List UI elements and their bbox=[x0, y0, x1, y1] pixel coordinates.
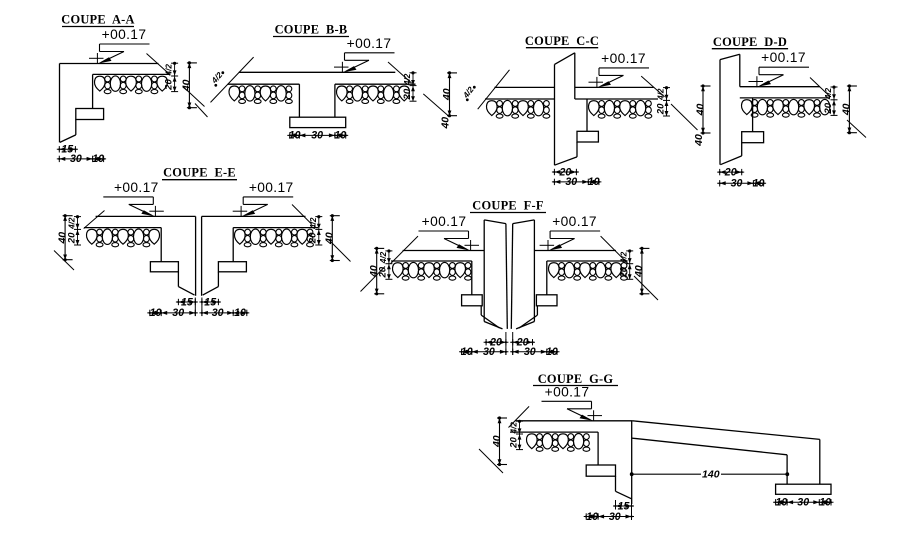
pavement surface left bbox=[494, 86, 554, 88]
svg-text:30: 30 bbox=[731, 178, 743, 190]
right footing bbox=[536, 295, 557, 306]
pavement surface line bbox=[60, 63, 159, 65]
left slope line bbox=[211, 57, 254, 102]
wall left face bbox=[719, 60, 721, 165]
base course edge right bbox=[546, 261, 548, 295]
kerb face line bbox=[59, 64, 61, 143]
extension line centre left bbox=[194, 298, 196, 317]
kerb face line bbox=[631, 421, 633, 504]
svg-text:+00.17: +00.17 bbox=[114, 180, 159, 195]
left footing bbox=[150, 262, 178, 272]
left wall inner face bbox=[506, 224, 507, 329]
svg-text:40: 40 bbox=[633, 265, 645, 278]
svg-text:COUPE F-F: COUPE F-F bbox=[472, 199, 543, 213]
svg-text:40: 40 bbox=[441, 88, 453, 101]
svg-text:40: 40 bbox=[368, 265, 380, 278]
svg-text:COUPE D-D: COUPE D-D bbox=[713, 35, 787, 49]
left wall bottom edge bbox=[484, 322, 502, 329]
dimension 30/10 bbox=[717, 182, 766, 184]
dimension 30/10 bbox=[510, 351, 559, 353]
svg-text:40: 40 bbox=[841, 103, 853, 116]
vertical dimension 40 bbox=[499, 418, 501, 465]
base course top left bbox=[391, 260, 472, 262]
svg-text:COUPE C-C: COUPE C-C bbox=[525, 34, 599, 48]
footing lower edge bbox=[615, 476, 617, 491]
console edge bbox=[586, 99, 588, 131]
pavement surface right bbox=[202, 215, 306, 217]
footing lower edge bbox=[741, 143, 743, 156]
svg-text:10: 10 bbox=[753, 178, 765, 190]
wall top edge bbox=[555, 53, 575, 65]
footing bbox=[290, 117, 346, 127]
svg-text:4/2: 4/2 bbox=[165, 64, 174, 77]
svg-text:20: 20 bbox=[823, 102, 834, 114]
layer dimensions 4/2 / 20 bbox=[77, 216, 79, 245]
dimension 30/10 bbox=[552, 181, 602, 183]
pavement surface line bbox=[516, 420, 633, 422]
right footing lower edge bbox=[217, 272, 219, 287]
left footing lower edge bbox=[177, 272, 179, 287]
aggregate hatch (gravel) bbox=[86, 229, 97, 244]
ground tick bbox=[184, 87, 205, 107]
right slope line bbox=[810, 78, 831, 98]
base course edge left unit bbox=[160, 228, 162, 262]
svg-text:+00.17: +00.17 bbox=[545, 384, 590, 399]
left ground tick bbox=[54, 251, 74, 271]
left slope line bbox=[391, 236, 418, 264]
svg-text:COUPE B-B: COUPE B-B bbox=[275, 23, 348, 37]
vertical dimension 40 bbox=[331, 216, 333, 261]
right ground tick bbox=[847, 120, 866, 138]
left footing chamfer bbox=[178, 287, 194, 296]
dimension 20 bbox=[484, 341, 509, 343]
aggregate hatch (gravel) bbox=[548, 263, 559, 278]
ramp bottom line bbox=[632, 438, 787, 455]
dimension 10/30 bbox=[459, 351, 508, 353]
base course top line bbox=[740, 97, 830, 99]
kerb footing bbox=[586, 465, 615, 476]
left slope line bbox=[509, 406, 530, 427]
wall bottom edge bbox=[555, 157, 578, 165]
svg-text:30: 30 bbox=[172, 307, 184, 319]
svg-text:10: 10 bbox=[334, 130, 346, 142]
right wall outer face bbox=[533, 220, 535, 322]
right wall top edge bbox=[513, 220, 535, 224]
svg-text:30: 30 bbox=[524, 346, 536, 358]
pavement surface line bbox=[740, 86, 820, 88]
dimension 10/30/10 bbox=[773, 501, 833, 503]
dimension 15 bbox=[57, 148, 78, 150]
svg-text:+00.17: +00.17 bbox=[422, 214, 467, 229]
layer dimensions 4/2 / 20 bbox=[174, 63, 176, 92]
kerb footing bbox=[76, 109, 104, 120]
svg-text:30: 30 bbox=[565, 176, 577, 188]
vertical dimension 40 bbox=[188, 63, 190, 108]
right kerb face bbox=[201, 216, 203, 295]
span dimension 140 bbox=[632, 473, 788, 475]
ramp inner face bbox=[786, 455, 788, 484]
dimension 30/10 bbox=[57, 158, 106, 160]
right wall inner face bbox=[511, 224, 512, 329]
footing chamfer bbox=[616, 491, 632, 499]
right ground tick bbox=[329, 240, 351, 262]
base course left edge bbox=[92, 74, 94, 108]
wall top edge bbox=[720, 54, 740, 59]
svg-text:40: 40 bbox=[324, 232, 336, 245]
wall lower right edge bbox=[576, 142, 578, 157]
dimension 20 bbox=[510, 341, 535, 343]
svg-text:10: 10 bbox=[819, 497, 831, 509]
wall right face bbox=[574, 53, 576, 99]
footing lower edge bbox=[75, 120, 77, 135]
svg-text:40: 40 bbox=[56, 232, 68, 245]
vertical dimension 40 bbox=[641, 248, 643, 293]
kerb footing bbox=[742, 132, 764, 143]
vertical dimension 40 bbox=[449, 73, 451, 116]
dimension 10/30/10 bbox=[287, 134, 348, 136]
right slope line bbox=[641, 76, 664, 97]
left footing lower edge bbox=[480, 306, 482, 315]
svg-text:10: 10 bbox=[150, 307, 162, 319]
svg-text:30: 30 bbox=[70, 153, 82, 165]
aggregate hatch (gravel) bbox=[741, 100, 752, 115]
console footing bbox=[577, 131, 598, 142]
aggregate hatch (gravel) bbox=[486, 101, 497, 116]
right footing chamfer bbox=[519, 315, 537, 328]
dimension 15 bbox=[613, 505, 634, 507]
wall left face bbox=[554, 64, 556, 165]
base course top line bbox=[93, 73, 171, 75]
svg-text:4/2: 4/2 bbox=[379, 251, 388, 264]
svg-text:+00.17: +00.17 bbox=[761, 50, 806, 65]
left footing chamfer bbox=[481, 315, 499, 328]
svg-text:20: 20 bbox=[508, 437, 519, 449]
base course top left bbox=[485, 98, 555, 100]
svg-text:10: 10 bbox=[289, 130, 301, 142]
svg-text:20: 20 bbox=[724, 166, 737, 178]
wall right face bbox=[739, 54, 741, 86]
dimension 20 bbox=[552, 171, 579, 173]
svg-text:20: 20 bbox=[619, 266, 630, 278]
left slope line bbox=[478, 70, 510, 109]
base course top right bbox=[575, 98, 658, 100]
left wall outer face bbox=[483, 220, 485, 322]
vertical dimension 40 bbox=[376, 248, 378, 293]
svg-text:4/2: 4/2 bbox=[824, 87, 833, 100]
right footing bbox=[776, 484, 831, 494]
dimension 20 bbox=[717, 171, 744, 173]
pavement surface line bbox=[239, 71, 395, 73]
base course edge right unit bbox=[232, 228, 234, 262]
stem left edge bbox=[298, 84, 300, 117]
svg-text:30: 30 bbox=[311, 130, 323, 142]
dimension 10/30 bbox=[584, 516, 634, 518]
svg-text:40: 40 bbox=[694, 104, 706, 117]
vertical dimension 40 bbox=[64, 216, 66, 260]
svg-text:20: 20 bbox=[163, 79, 174, 91]
base course edge bbox=[752, 98, 754, 132]
svg-text:10: 10 bbox=[546, 346, 558, 358]
layer dimensions 4/2 / 20 bbox=[388, 251, 390, 280]
left footing bbox=[462, 295, 483, 306]
dimension 30/10 bbox=[199, 312, 249, 314]
right ground tick bbox=[671, 104, 698, 130]
footing chamfer bbox=[720, 156, 741, 165]
vertical dimension 40 bbox=[702, 86, 704, 133]
base course edge left bbox=[471, 261, 473, 295]
svg-text:+00.17: +00.17 bbox=[102, 27, 147, 42]
left ground tick bbox=[361, 267, 386, 292]
svg-text:20: 20 bbox=[655, 103, 666, 115]
ramp right face bbox=[819, 439, 821, 484]
svg-text:COUPE A-A: COUPE A-A bbox=[61, 13, 134, 27]
aggregate hatch (gravel) bbox=[588, 101, 599, 116]
svg-text:40: 40 bbox=[440, 117, 452, 130]
pavement surface left bbox=[403, 250, 485, 252]
svg-text:+00.17: +00.17 bbox=[601, 51, 646, 66]
extension line centre right bbox=[201, 298, 203, 317]
base course top left bbox=[84, 227, 161, 229]
extension line centre right bbox=[512, 332, 514, 355]
svg-text:10: 10 bbox=[234, 307, 246, 319]
right slope line bbox=[388, 62, 412, 83]
layer dimensions 4/2 / 20 bbox=[318, 216, 320, 245]
extension line centre left bbox=[505, 332, 507, 355]
dimension 15 bbox=[176, 301, 198, 303]
svg-text:10: 10 bbox=[461, 346, 473, 358]
left slope line bbox=[84, 211, 105, 229]
pavement surface right bbox=[534, 250, 616, 252]
extension line kerb face bbox=[631, 500, 633, 521]
svg-text:+00.17: +00.17 bbox=[347, 36, 392, 51]
svg-text:10: 10 bbox=[588, 176, 600, 188]
base course edge bbox=[597, 432, 599, 465]
right slope line bbox=[292, 205, 312, 225]
base course top left bbox=[228, 83, 300, 85]
right ground tick bbox=[634, 276, 658, 300]
svg-text:4/2: 4/2 bbox=[620, 251, 629, 264]
vertical dimension 40 bbox=[848, 86, 850, 133]
left wall top edge bbox=[484, 220, 506, 224]
layer dimensions 4/2 / 20 bbox=[666, 87, 668, 116]
right footing lower edge bbox=[536, 306, 538, 315]
svg-text:4/2: 4/2 bbox=[68, 217, 77, 230]
right ground tick bbox=[423, 94, 448, 116]
stem right edge bbox=[334, 84, 336, 117]
layer dimensions 4/2 / 20 bbox=[629, 251, 631, 280]
svg-text:4/2: 4/2 bbox=[510, 422, 519, 435]
aggregate hatch (gravel) bbox=[336, 86, 347, 101]
aggregate hatch (gravel) bbox=[229, 86, 240, 101]
svg-text:10: 10 bbox=[586, 511, 598, 523]
pavement surface left bbox=[96, 215, 196, 217]
aggregate hatch (gravel) bbox=[94, 76, 105, 91]
base course top line bbox=[510, 431, 598, 433]
svg-text:4/2: 4/2 bbox=[309, 217, 318, 230]
right slope line bbox=[601, 236, 628, 264]
pavement surface right bbox=[575, 86, 654, 88]
aggregate hatch (gravel) bbox=[392, 263, 403, 278]
svg-text:4/2: 4/2 bbox=[657, 88, 666, 101]
svg-text:30: 30 bbox=[609, 511, 621, 523]
ramp top line bbox=[633, 421, 820, 440]
svg-text:+00.17: +00.17 bbox=[552, 214, 597, 229]
left ground tick bbox=[479, 449, 503, 473]
embankment slope line bbox=[147, 54, 170, 75]
right wall bottom edge bbox=[516, 322, 534, 329]
svg-text:COUPE E-E: COUPE E-E bbox=[163, 166, 236, 180]
svg-text:10: 10 bbox=[92, 153, 104, 165]
svg-text:20: 20 bbox=[308, 232, 319, 244]
svg-text:30: 30 bbox=[483, 346, 495, 358]
svg-text:4/2: 4/2 bbox=[403, 73, 412, 86]
base course top right bbox=[335, 83, 416, 85]
left ground tick bbox=[195, 104, 208, 118]
layer dimensions 4/2 / 20 bbox=[412, 73, 414, 102]
extension line footing bbox=[615, 500, 617, 510]
svg-text:10: 10 bbox=[776, 497, 788, 509]
dimension 10/30 bbox=[147, 312, 198, 314]
layer dimensions 4/2 / 20 bbox=[833, 87, 835, 116]
svg-text:40: 40 bbox=[491, 435, 503, 448]
layer dimensions 4/2 / 20 bbox=[519, 421, 521, 450]
svg-text:30: 30 bbox=[797, 497, 809, 509]
dimension 15 bbox=[199, 301, 221, 303]
svg-text:+00.17: +00.17 bbox=[249, 180, 294, 195]
aggregate hatch (gravel) bbox=[234, 229, 245, 244]
footing chamfer bbox=[60, 135, 76, 143]
svg-text:140: 140 bbox=[702, 469, 720, 481]
aggregate hatch (gravel) bbox=[526, 434, 537, 449]
base course top right bbox=[547, 260, 628, 262]
base course top right bbox=[233, 227, 318, 229]
svg-text:30: 30 bbox=[212, 307, 224, 319]
svg-text:20: 20 bbox=[402, 88, 413, 100]
svg-text:40: 40 bbox=[693, 134, 705, 147]
right footing chamfer bbox=[203, 287, 219, 296]
right footing bbox=[218, 262, 246, 272]
left kerb face bbox=[195, 216, 197, 295]
